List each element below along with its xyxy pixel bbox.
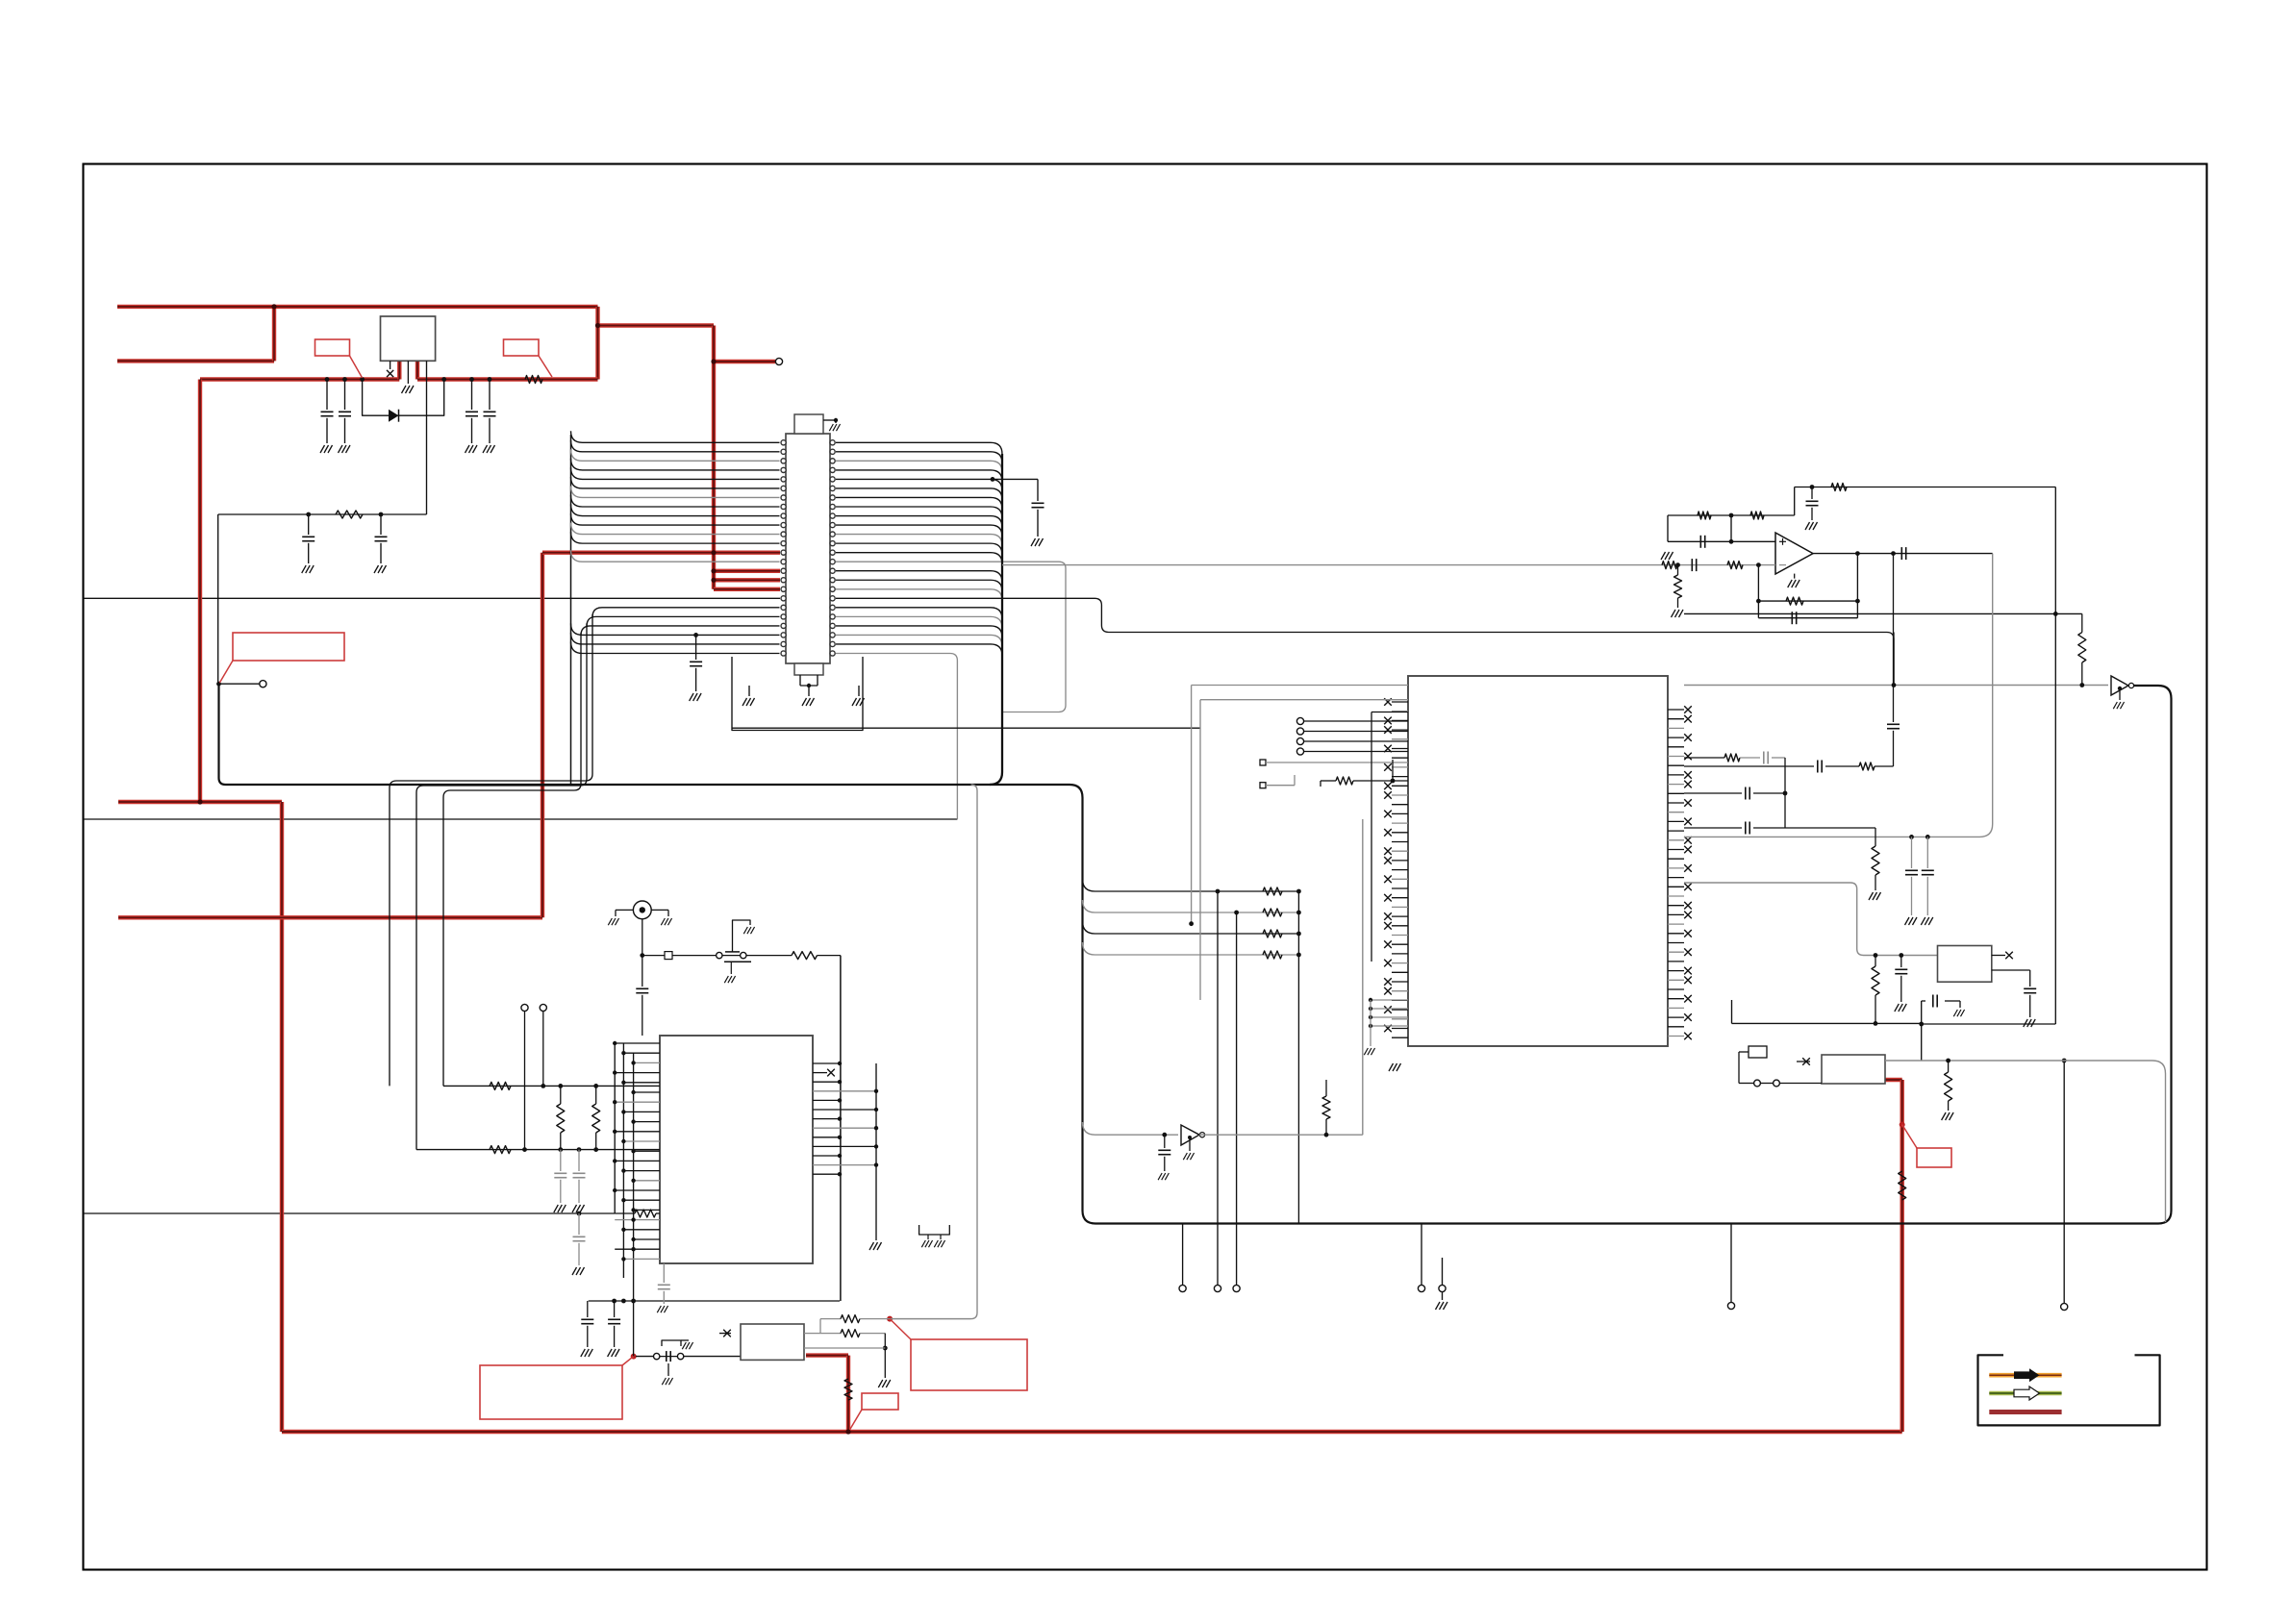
pin J1 R21 [830, 623, 835, 628]
pin U3 L30 [1392, 981, 1408, 983]
terminal U3 in3 [1296, 748, 1303, 755]
pin U3 R13 [1668, 830, 1684, 832]
wire J1 left row1 [571, 440, 780, 452]
ground x920 [878, 1380, 891, 1387]
terminal b6 [1727, 1302, 1734, 1309]
pin J1 R1 [830, 440, 835, 445]
wire [1875, 828, 1876, 846]
junction [874, 1126, 878, 1130]
resistor R812 [1336, 777, 1353, 785]
resistor y861 pd [1872, 846, 1879, 875]
pin J1 L18 [781, 596, 786, 601]
junction [1783, 791, 1788, 796]
pin J1 L10 [781, 522, 786, 527]
pin J1 R14 [830, 560, 835, 564]
wire [1926, 837, 1928, 868]
red stub y954 [118, 915, 542, 919]
pin U3 L11 [1392, 804, 1408, 806]
bus x658 [633, 1053, 635, 1301]
red junction [197, 799, 202, 804]
pin U3 R19 [1668, 886, 1684, 887]
pin U2 L10 [623, 1140, 660, 1142]
ground J1 top [829, 424, 840, 431]
osc IC U6 [1822, 1055, 1885, 1084]
trimmer plate high [725, 951, 740, 953]
wire to inverter [1083, 1122, 1179, 1135]
bus return loop [219, 684, 2172, 1223]
pin J1 L3 [781, 459, 786, 463]
bot stub2 [817, 675, 818, 686]
nc U3 R10 [1684, 799, 1692, 807]
wire circle to U3 [1304, 740, 1408, 742]
trimmer wire [722, 955, 741, 957]
junction [874, 1089, 878, 1093]
resistor osc pd [1945, 1072, 1952, 1101]
wire [2081, 662, 2083, 686]
capacitor u2l [554, 1173, 566, 1177]
resistor Rg [1674, 575, 1682, 598]
pin U3 R22 [1668, 913, 1684, 915]
resistor RN1-3 [1263, 951, 1282, 959]
capacitor row535 [375, 537, 388, 540]
pin J1 L16 [781, 578, 786, 583]
wire [681, 1339, 689, 1341]
wire row535 [218, 513, 427, 515]
ground a [921, 1240, 932, 1247]
pin U3 R12 [1668, 820, 1684, 822]
wire [595, 1133, 597, 1150]
nc U3 R24 [1684, 930, 1692, 937]
pin J1 L2 [781, 449, 786, 454]
crystal pin2 [1774, 1080, 1780, 1087]
bus wire drop A [390, 614, 592, 1087]
wire J1 right row6 [836, 497, 1002, 509]
wire U3 bl row0 [1371, 999, 1408, 1001]
pin U3 R21 [1668, 905, 1684, 907]
nc U3 R8 [1684, 781, 1692, 788]
pin U3 L5 [1392, 748, 1408, 750]
gnd stub b [940, 1235, 942, 1239]
reset IC U9 [741, 1324, 804, 1360]
wire [2029, 970, 2031, 987]
wire [1442, 1292, 1444, 1300]
pin J1 R7 [830, 495, 835, 500]
wire rbank row0 [1083, 879, 1299, 891]
wire switch to U9 [684, 1356, 741, 1358]
ground b [934, 1240, 944, 1247]
capacitor y825 [1746, 787, 1749, 800]
nc U3 R12 [1684, 818, 1692, 826]
junction [306, 512, 311, 517]
wire [1900, 976, 1902, 1002]
junction [613, 1188, 617, 1192]
nc U3 R17 [1684, 864, 1692, 872]
power rail right [417, 377, 598, 381]
junction [883, 1346, 888, 1351]
wire [819, 1319, 821, 1334]
wire J1 right row23 [836, 653, 957, 819]
connector bottom key [794, 663, 823, 675]
junction [621, 1257, 625, 1261]
pin U3 L36 [1392, 1037, 1408, 1038]
junction test stub [216, 682, 221, 687]
bundle into bus [990, 454, 1002, 785]
pin U3 R15 [1668, 849, 1684, 851]
wire circle1 [524, 1012, 526, 1150]
red vertical x564 [541, 553, 544, 918]
resistor v582 [557, 1104, 565, 1133]
junction [612, 1299, 617, 1304]
wire [1922, 1000, 1925, 1002]
bus x911 [875, 1063, 877, 1240]
wire [595, 1086, 597, 1104]
junction [631, 1179, 635, 1183]
pin U3 R16 [1668, 858, 1684, 860]
junction [1162, 1133, 1167, 1137]
ground opamp [1788, 580, 1800, 587]
terminal U3 in1 [1296, 728, 1303, 735]
crystal left wire [1739, 1083, 1754, 1085]
wire x2146 [2063, 1061, 2065, 1303]
wire [1730, 515, 1732, 541]
power stub riser [272, 307, 276, 362]
ground opamp in [1661, 552, 1673, 560]
pin U3 L25 [1392, 935, 1408, 937]
wire [614, 1326, 616, 1347]
ground J1 bottom [802, 698, 815, 706]
u2 bottom cap lead [663, 1263, 665, 1283]
pin U3 L28 [1392, 962, 1408, 964]
capacitor Cout [1901, 547, 1905, 560]
wire J1 left row21 [571, 623, 780, 635]
wire y757 [732, 727, 1200, 729]
pin J1 L8 [781, 504, 786, 509]
ground switch bottom [662, 1378, 672, 1385]
pin U2 L11 [634, 1150, 660, 1152]
pin U3 L21 [1392, 897, 1408, 899]
wire [1875, 875, 1876, 890]
wire J1 left row2 [571, 449, 780, 461]
wire x1238 vertical [1191, 686, 1193, 924]
pin U3 L3 [1392, 729, 1408, 731]
ground cap [339, 445, 351, 453]
nc U3 L21 [1384, 894, 1392, 902]
pin U3 R23 [1668, 923, 1684, 925]
junction [834, 418, 838, 422]
wire [1320, 781, 1321, 787]
diode bar [398, 410, 400, 422]
resistor Rt1 [1698, 512, 1711, 519]
junction [621, 1299, 626, 1304]
crystal top box [1749, 1046, 1767, 1058]
opamp plus v [1782, 538, 1784, 545]
red vertical x293 [280, 802, 284, 1432]
wire r812 [1321, 780, 1336, 782]
nc U3 R21 [1684, 902, 1692, 910]
cap lead row21 [695, 635, 697, 660]
pin U3 L19 [1392, 878, 1408, 880]
wire J1 left row19 to drop [587, 616, 780, 626]
junction [631, 1217, 635, 1221]
nc U3 R19 [1684, 884, 1692, 891]
wire [615, 1212, 635, 1214]
resistor after trimmer [792, 952, 818, 960]
jack center [640, 907, 645, 912]
diode loop wire [363, 380, 444, 416]
power corner down [595, 307, 599, 380]
wire: left input to IC2 bus row [84, 1212, 616, 1214]
red junction [271, 304, 276, 309]
pin J1 L5 [781, 477, 786, 482]
wire J1 right row9 [836, 525, 1002, 537]
wire to corner [818, 955, 841, 957]
wire [800, 685, 818, 687]
pin U2 L0 [615, 1042, 660, 1044]
wire [1893, 731, 1895, 766]
resistor row1129 [490, 1082, 511, 1089]
wire [1677, 598, 1679, 608]
capacitor row1353 [581, 1319, 593, 1323]
wire [1911, 877, 1913, 915]
wire [820, 1333, 841, 1335]
junction [621, 1081, 625, 1085]
wire J1 right row2 [836, 461, 1002, 472]
wire J1 right row3 [836, 470, 1002, 482]
red junction [711, 568, 716, 573]
nc U3 R22 [1684, 912, 1692, 919]
shield box J1 bottom [732, 657, 863, 731]
IC U5 body [1938, 946, 1992, 983]
nc mark pin1 [387, 370, 393, 377]
junction [1675, 562, 1680, 567]
wire [1760, 1083, 1773, 1085]
nc U3 R3 [1684, 734, 1692, 741]
wire [858, 686, 860, 696]
wire [560, 1180, 562, 1203]
junction diode tap [360, 377, 365, 382]
nc U3 R14 [1684, 837, 1692, 844]
red bottom rail [282, 1430, 1902, 1434]
nc U3 L28 [1384, 960, 1392, 967]
wire [1677, 565, 1679, 575]
red junction [711, 550, 716, 555]
pin U3 R8 [1668, 784, 1684, 786]
pin U2 L13 [623, 1170, 660, 1172]
wire x1997 down [1921, 1001, 1923, 1061]
leader 7 [1902, 1125, 1917, 1148]
connector J1 body [786, 434, 830, 663]
pin U3 L15 [1392, 841, 1408, 843]
capacitor u2l [573, 1173, 586, 1177]
ground cap [483, 445, 495, 453]
pin J1 L22 [781, 633, 786, 637]
pin J1 L4 [781, 467, 786, 472]
nc U3 L33 [1384, 1006, 1392, 1013]
pin U2 R11 [813, 1164, 876, 1166]
cap lead2 [489, 418, 491, 443]
capacitor inv [1158, 1150, 1170, 1154]
wire J1 left row3 [571, 459, 780, 470]
pin U3 L27 [1392, 953, 1408, 955]
wire [2029, 995, 2031, 1017]
stub b6 [1730, 1224, 1732, 1303]
arc into bundle [991, 479, 1002, 490]
nc U3 L26 [1384, 940, 1392, 948]
nc U2 [827, 1069, 835, 1077]
junction [838, 1062, 842, 1065]
pin U2 L18 [615, 1219, 660, 1221]
ground row1353 [608, 1349, 620, 1357]
wire J1 left row10 [571, 523, 780, 535]
leader 1 [350, 356, 363, 378]
pin U2 L9 [615, 1131, 660, 1133]
junction [1946, 1059, 1950, 1063]
wire rbank row1 [1083, 900, 1299, 912]
red junction [711, 359, 716, 363]
wire [808, 686, 810, 696]
junction [379, 512, 384, 517]
wire x1416 vertical [1362, 819, 1364, 1135]
junction [631, 1090, 635, 1094]
bus wire drop B [416, 623, 587, 1149]
wire x1285 down [1236, 912, 1238, 1285]
red junction reset [631, 1354, 637, 1360]
pin U3 L20 [1392, 887, 1408, 889]
wire to resistor [746, 955, 792, 957]
pin U3 L13 [1392, 822, 1408, 824]
pin U2 L7 [623, 1111, 660, 1112]
wire [578, 1213, 580, 1235]
wire y1065 [1922, 1023, 2056, 1025]
junction [1189, 921, 1194, 926]
wire x1426 vertical [1371, 712, 1372, 962]
opamp top net [1668, 514, 1795, 516]
pin U3 R24 [1668, 933, 1684, 935]
wire J1 right row12 [836, 553, 1002, 564]
nc U6 [1802, 1058, 1810, 1065]
ground u2 bottom [657, 1306, 667, 1312]
wire [835, 420, 837, 423]
wire [560, 1150, 562, 1171]
red vertical x1977 [1900, 1080, 1903, 1432]
pin U3 L2 [1392, 719, 1408, 721]
pin J1 L11 [781, 532, 786, 537]
red junction x1977 [1900, 1122, 1905, 1128]
pin U2 L1 [623, 1052, 660, 1054]
IC U3 body [1408, 676, 1668, 1046]
stub b5 [1442, 1258, 1444, 1285]
wire [1772, 757, 1785, 759]
junction [1296, 953, 1301, 958]
wire [660, 1356, 677, 1358]
terminal b2 [1214, 1285, 1220, 1291]
wire [1926, 877, 1928, 915]
wire [1753, 827, 1875, 829]
pin J1 L7 [781, 495, 786, 500]
fan bus vertical [570, 435, 572, 785]
pin U3 R20 [1668, 895, 1684, 897]
opamp - input long wire [1002, 564, 1775, 566]
wire J1 left row7 [571, 495, 780, 507]
junction [1324, 1133, 1329, 1137]
wire to bead [642, 955, 665, 957]
cap lead [308, 514, 310, 535]
buffer dot [2118, 687, 2122, 690]
cap lead [326, 380, 328, 411]
junction [613, 1130, 617, 1134]
capacitor row1262 [573, 1237, 586, 1240]
junction [1188, 1136, 1192, 1139]
wire [820, 1318, 841, 1320]
U5 nc [1992, 955, 2005, 957]
pin U2 R8 [813, 1137, 840, 1138]
junction rail [488, 377, 492, 382]
annotation box 1 [315, 339, 350, 356]
jack signal wire [642, 919, 643, 956]
pin U3 L4 [1392, 738, 1408, 740]
pin J1 L24 [781, 651, 786, 656]
nc U3 L23 [1384, 912, 1392, 920]
wire x1968 up [1893, 554, 1895, 722]
pin U3 R34 [1668, 1026, 1684, 1028]
wire y1064 [1732, 1022, 1922, 1024]
switch p2 [677, 1353, 683, 1359]
wire [1370, 1000, 1371, 1046]
wire [587, 1326, 589, 1347]
pin J1 R4 [830, 467, 835, 472]
wire [1911, 837, 1913, 868]
pin U2 L22 [623, 1258, 660, 1260]
pin J1 L12 [781, 541, 786, 546]
pin U2 L20 [634, 1238, 660, 1240]
pin J1 R13 [830, 550, 835, 555]
resistor inline on rail [525, 376, 542, 384]
nc U3 R0 [1684, 706, 1692, 713]
pin U3 L6 [1392, 757, 1408, 759]
power rail left [200, 377, 399, 381]
junction [522, 1147, 527, 1152]
leader 5 [850, 1410, 863, 1430]
wire J1 left row0 [571, 431, 780, 442]
wire [663, 1291, 665, 1304]
pin U2 L17 [634, 1209, 660, 1211]
wire [748, 686, 750, 696]
cap lead2 [471, 418, 473, 443]
wire to gray bus [890, 1318, 970, 1320]
wire to trimmer [672, 955, 717, 957]
wire J1 right row16 [836, 589, 1002, 601]
power to connector [598, 323, 715, 327]
wire circle to U3 [1304, 731, 1408, 733]
nc U3 R1 [1684, 715, 1692, 723]
ground row1262 [572, 1267, 585, 1275]
legend bracket [1978, 1355, 2160, 1425]
wire [860, 1318, 890, 1320]
wire [1738, 1052, 1740, 1084]
resistor RN1-0 [1263, 887, 1282, 895]
junction [631, 1119, 635, 1123]
wire [1948, 1101, 1950, 1111]
opamp + input wire [1668, 540, 1775, 542]
junction [613, 1159, 617, 1162]
switch plates [667, 1351, 670, 1362]
wire [1325, 1080, 1327, 1096]
wire y797 [1684, 765, 1814, 767]
nc U3 L30 [1384, 978, 1392, 986]
capacitor fb [1806, 501, 1819, 505]
double ground rail [919, 1225, 950, 1235]
pin U3 R33 [1668, 1016, 1684, 1018]
